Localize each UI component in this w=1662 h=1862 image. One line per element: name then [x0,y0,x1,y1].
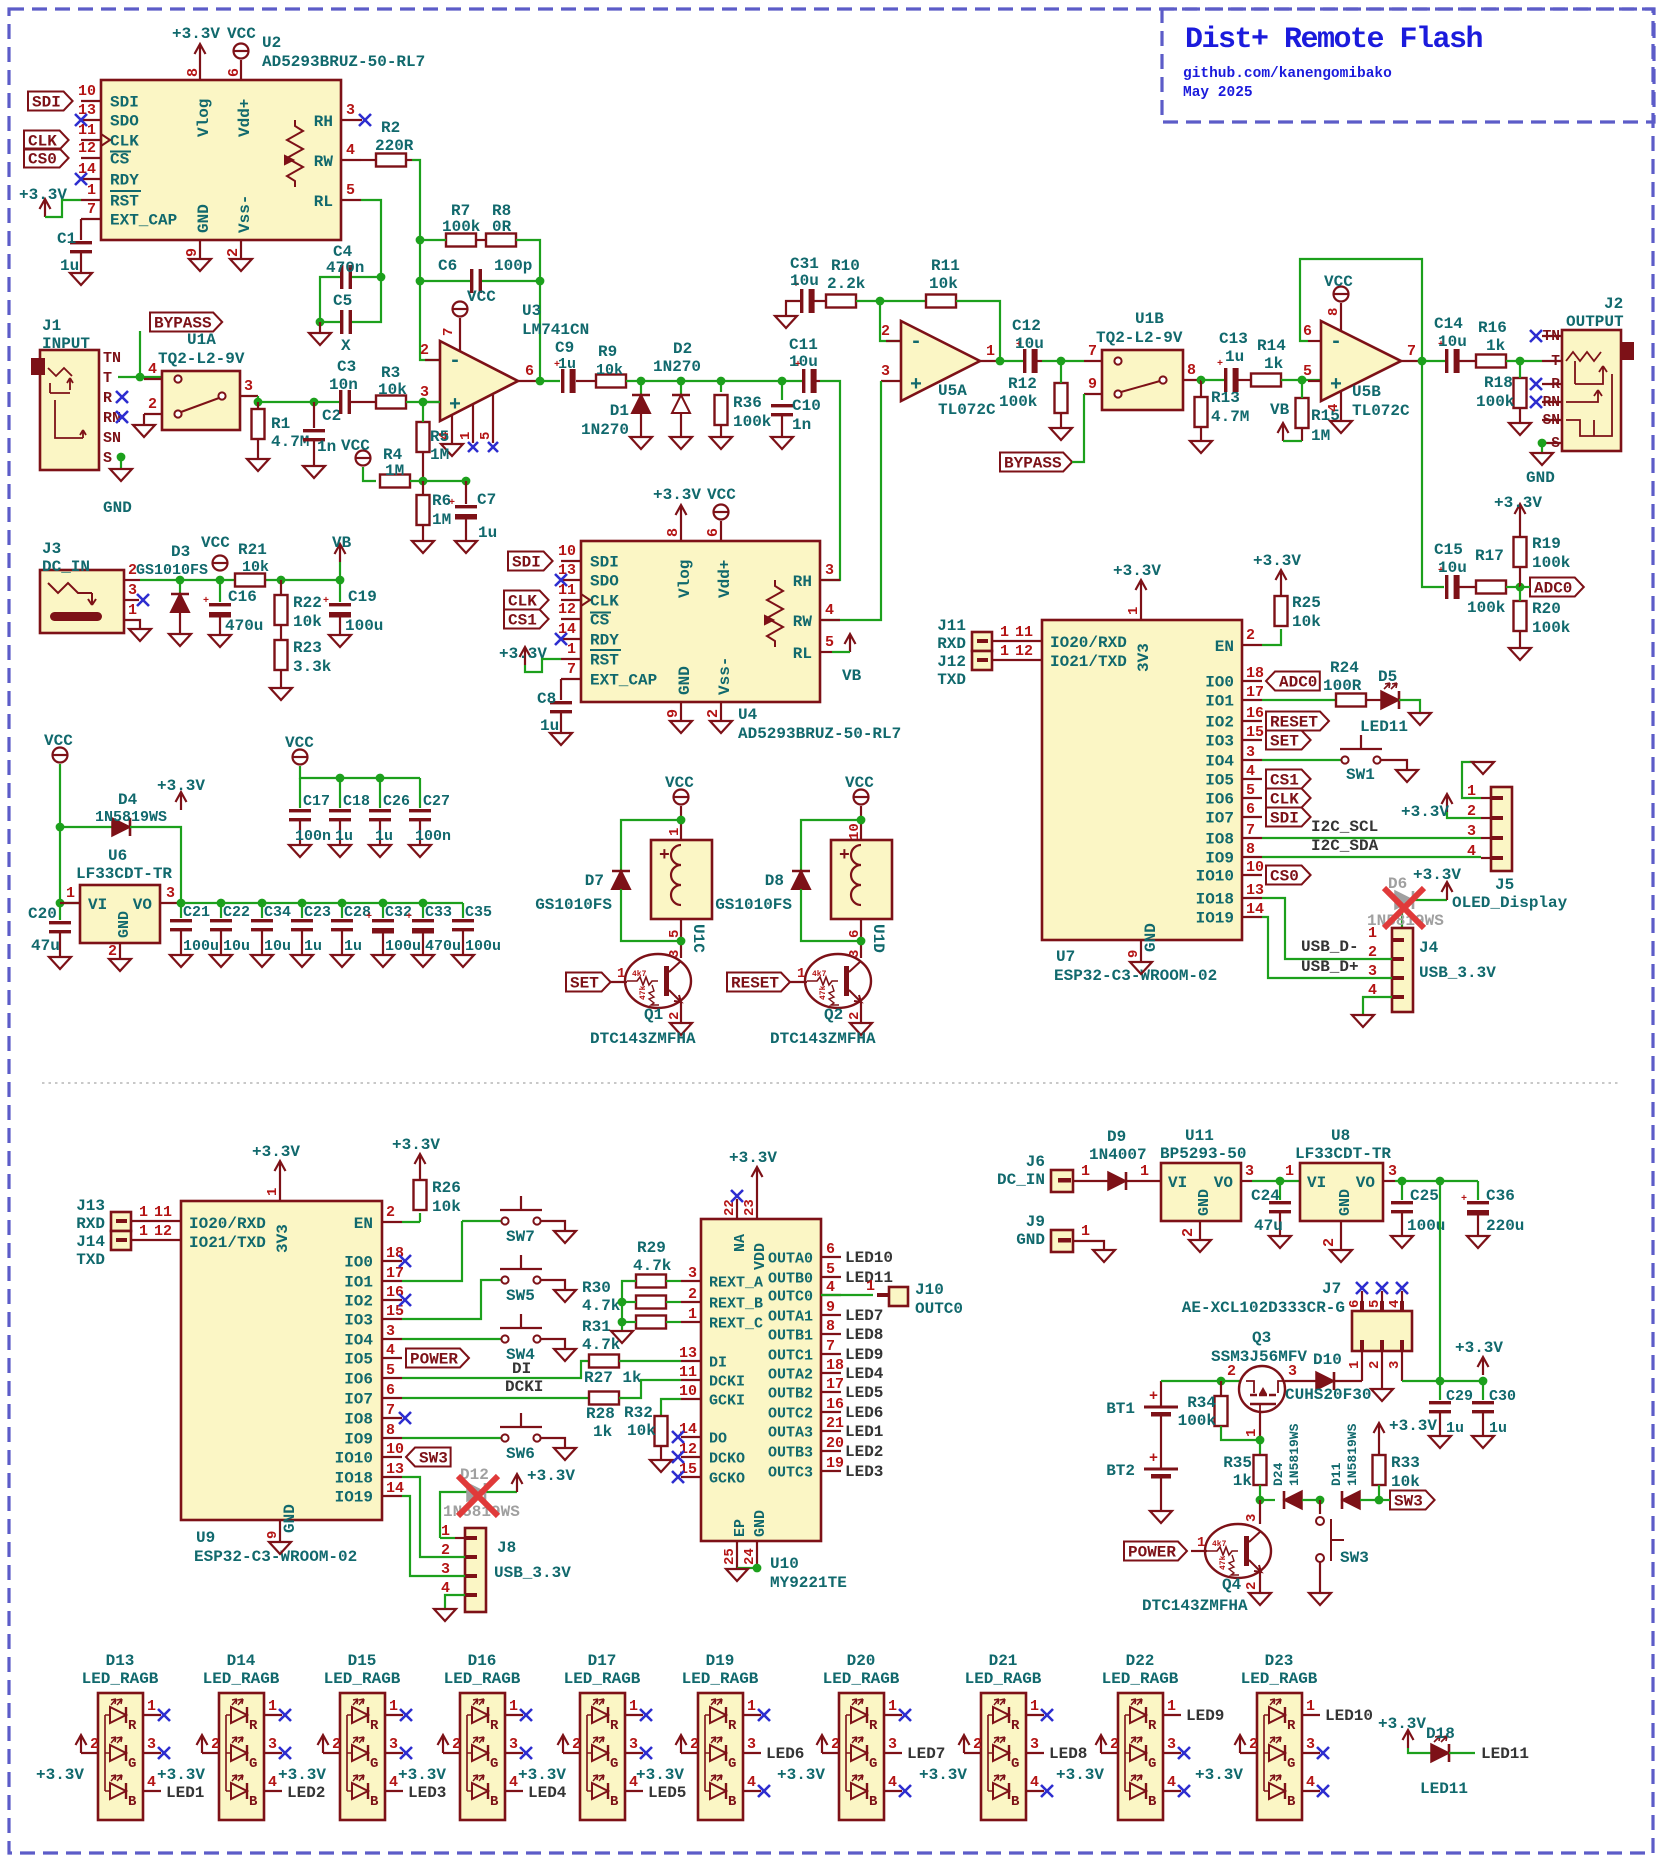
label CS0 at IO10 [1266,866,1311,885]
svg-text:LED_RAGB: LED_RAGB [965,1670,1042,1688]
svg-text:17: 17 [826,1376,844,1393]
connector J8 USB_3.3V [465,1528,486,1612]
svg-text:7: 7 [87,201,96,218]
capacitor C29 1u [1439,1381,1441,1400]
label RESET [727,973,790,992]
U5A pin stubs [886,340,901,342]
D13 no-connect pin1 [158,1709,170,1721]
wire U5A +input to U4 RW [822,381,881,620]
svg-text:8: 8 [665,528,682,537]
ground below U2 GND pin [189,259,211,271]
svg-text:C3: C3 [337,358,356,376]
svg-text:470u: 470u [225,617,263,635]
svg-text:SW3: SW3 [1394,1493,1423,1511]
resistor R23 3.3k [275,640,288,670]
svg-text:2: 2 [1180,1228,1197,1237]
junction R36 [717,377,726,386]
D21 pin2 +3.3V [964,1752,981,1754]
svg-text:D20: D20 [847,1652,876,1670]
resistor R4 1M [380,475,410,488]
svg-text:U7: U7 [1056,948,1075,966]
label BYPASS at U1B [1000,453,1072,472]
svg-text:1: 1 [567,641,576,658]
wire IO18 to J8 pin2 [402,1477,465,1557]
capacitor C23 1u [301,903,303,918]
svg-text:+3.3V: +3.3V [398,1766,446,1784]
no-connect X on U4 SDO [555,574,567,586]
svg-text:G: G [249,1756,257,1772]
section separator dotted line [42,1082,1620,1084]
U2 right pin stubs [341,119,362,121]
svg-text:3: 3 [166,885,175,902]
junction R33 bottom [1375,1496,1384,1505]
label SW3 out [1390,1491,1435,1510]
capacitor C34 10u [261,903,263,918]
junction R34 top [1217,1377,1226,1386]
svg-text:1: 1 [888,1698,897,1715]
svg-text:13: 13 [386,1461,404,1478]
svg-text:1: 1 [1030,1698,1039,1715]
junction U1C pin1 [677,816,686,825]
junction C18 [336,774,345,783]
junction C22 [217,899,226,908]
svg-text:10n: 10n [329,376,358,394]
svg-text:10k: 10k [378,381,407,399]
power VB at U4 RL [845,634,856,652]
svg-text:C31: C31 [790,255,819,273]
svg-text:1n: 1n [792,416,811,434]
svg-text:J10: J10 [915,1281,944,1299]
D21 no-connect pin4 [1041,1785,1053,1797]
svg-text:+: + [323,596,329,607]
svg-text:-: - [1330,331,1342,354]
ground below J7 pin2 [1371,1389,1393,1401]
svg-text:USB_D-: USB_D- [1301,938,1359,956]
resistor R5 1M [417,422,430,452]
svg-text:RESET: RESET [731,975,779,993]
resistors R29/R30/R31 4.7k [636,1275,666,1288]
U4 potentiometer zigzag [767,580,783,647]
svg-text:1: 1 [139,1223,148,1240]
svg-text:Vdd+: Vdd+ [716,560,734,598]
svg-text:C34: C34 [264,904,291,921]
svg-text:DTC143ZMFHA: DTC143ZMFHA [770,1030,876,1048]
ground below C16 [209,635,231,647]
svg-text:1M: 1M [432,511,451,529]
capacitor C27 100n [419,778,421,808]
RGB LED D20 LED_RAGB [839,1693,884,1820]
power VCC at U4 Vdd+ [714,505,729,520]
D16 pin2 +3.3V [443,1752,460,1754]
capacitor C22 10u [220,903,222,918]
svg-text:TXD: TXD [76,1251,105,1269]
svg-text:VCC: VCC [44,732,73,750]
svg-text:IO2: IO2 [344,1293,373,1311]
svg-text:Vlog: Vlog [195,99,213,137]
svg-text:10: 10 [78,83,96,100]
ground below R13 [1190,441,1212,453]
label POWER at IO5 [406,1349,469,1368]
svg-text:16: 16 [386,1284,404,1301]
svg-text:1M: 1M [385,462,404,480]
junction U1D pin10 [857,816,866,825]
svg-text:D10: D10 [1313,1351,1342,1369]
connector J6 DC_IN [1051,1170,1073,1192]
svg-text:100R: 100R [1323,677,1362,695]
svg-text:U6: U6 [108,847,127,865]
label RESET at IO2 [1266,712,1329,731]
svg-text:Vdd+: Vdd+ [236,99,254,137]
power VCC at C16 [213,556,228,571]
svg-text:22: 22 [722,1199,738,1216]
svg-text:10u: 10u [1438,559,1467,577]
svg-text:R23: R23 [293,639,322,657]
D13 right pins [143,1714,161,1716]
svg-text:LED3: LED3 [408,1784,446,1802]
svg-text:DTC143ZMFHA: DTC143ZMFHA [590,1030,696,1048]
svg-text:2: 2 [667,1012,683,1020]
RGB LED D17 LED_RAGB [580,1693,625,1820]
svg-text:TN: TN [103,350,121,367]
capacitor C7 1u [465,481,467,504]
svg-text:NA: NA [732,1234,749,1252]
J9 pin1 to ground [1073,1241,1104,1249]
D14 right pins [264,1714,282,1716]
svg-text:IO7: IO7 [1205,810,1234,828]
power VCC at U5B pin8 [1334,287,1349,302]
wire IO1 to SW7 branch [402,1221,462,1281]
svg-text:RXD: RXD [76,1215,105,1233]
svg-text:IO4: IO4 [1205,753,1234,771]
U2 potentiometer zigzag [287,120,303,187]
connector J11 RXD [972,632,992,651]
svg-text:R21: R21 [238,541,267,559]
J2 sleeve ground [1538,439,1547,448]
svg-text:4: 4 [1246,763,1255,780]
U4 right pin stubs [820,579,840,581]
svg-text:GND: GND [116,911,133,938]
label SDI [28,92,73,111]
push button SW4 [402,1338,504,1340]
svg-text:3: 3 [1387,1361,1403,1369]
svg-text:100u: 100u [465,938,501,955]
svg-text:-: - [910,331,922,354]
svg-text:SET: SET [1270,733,1299,751]
svg-text:10k: 10k [1391,1473,1420,1491]
label ADC0 output [1530,578,1584,597]
ground below C33 [412,955,434,967]
svg-text:4.7k: 4.7k [582,1297,621,1315]
svg-text:Dist+ Remote Flash: Dist+ Remote Flash [1185,23,1483,57]
svg-text:1: 1 [1000,643,1009,660]
svg-text:1M: 1M [1311,427,1330,445]
D20 pin2 +3.3V [822,1752,839,1754]
svg-text:C18: C18 [343,793,370,810]
svg-text:OUTB2: OUTB2 [768,1386,813,1403]
svg-text:OUTA2: OUTA2 [768,1367,813,1384]
svg-text:100k: 100k [1178,1412,1217,1430]
svg-text:CS1: CS1 [508,612,537,630]
D22 no-connect pin4 [1178,1785,1190,1797]
svg-text:VCC: VCC [467,288,496,306]
svg-text:D17: D17 [588,1652,617,1670]
svg-text:1u: 1u [304,938,322,955]
U3 offset pins 1 and 5 [472,405,474,443]
svg-text:11: 11 [1015,624,1033,641]
svg-text:RW: RW [314,153,334,171]
svg-text:D15: D15 [348,1652,377,1670]
svg-text:REXT_B: REXT_B [709,1296,763,1313]
svg-text:47k: 47k [639,985,648,1000]
svg-text:GND: GND [281,1504,299,1533]
svg-text:ADC0: ADC0 [1279,674,1317,692]
svg-text:1N270: 1N270 [653,358,701,376]
wire J13 to U9 pin11 [131,1220,181,1222]
svg-text:8: 8 [1187,362,1196,379]
U2 bottom pins ground [199,240,201,258]
no-connect X J1 RN [116,411,128,423]
svg-text:47u: 47u [31,937,60,955]
no-connect X J2 TN [1530,330,1542,342]
svg-text:LED_RAGB: LED_RAGB [444,1670,521,1688]
svg-text:100k: 100k [733,413,772,431]
svg-text:15: 15 [386,1303,404,1320]
wire J7 pin3 to 3.3V rail [1402,1380,1483,1382]
svg-text:100k: 100k [1532,619,1571,637]
svg-text:+: + [406,912,412,923]
junction C25 [1398,1177,1407,1186]
svg-text:4: 4 [509,1774,518,1791]
svg-text:1: 1 [1244,1429,1260,1437]
svg-text:+3.3V: +3.3V [1113,562,1161,580]
svg-text:IO5: IO5 [344,1351,373,1369]
label POWER at Q4 [1124,1542,1187,1561]
U3 pin4 ground [451,415,453,443]
junction C4 right [377,273,386,282]
U6 pin stubs [60,902,80,904]
D17 no-connect pin3 [640,1747,652,1759]
D17 no-connect pin1 [640,1709,652,1721]
svg-text:4: 4 [148,361,157,378]
svg-text:J8: J8 [497,1539,516,1557]
svg-text:OUTB0: OUTB0 [768,1271,813,1288]
svg-text:14: 14 [1246,901,1264,918]
D14 pin2 +3.3V [202,1752,219,1754]
capacitor C8 1u [560,679,562,700]
ground at SW1 [1396,770,1418,782]
svg-text:1: 1 [1126,607,1142,615]
svg-text:R: R [103,390,112,407]
svg-text:G: G [869,1756,877,1772]
svg-text:D9: D9 [1107,1128,1126,1146]
RGB LED D13 LED_RAGB [98,1693,143,1820]
svg-text:3: 3 [1388,1163,1397,1180]
wire J8 pin1 to D12 [455,1537,465,1539]
svg-text:2: 2 [1321,1238,1338,1247]
junction U5A output [996,357,1005,366]
svg-text:C19: C19 [348,588,377,606]
wire OUTC0 to J10 [821,1294,873,1296]
svg-text:1: 1 [667,828,683,836]
svg-text:1: 1 [66,885,75,902]
svg-text:18: 18 [1246,665,1264,682]
ground below R32 [650,1460,672,1472]
svg-text:SN: SN [103,430,121,447]
svg-text:9: 9 [265,1531,281,1539]
svg-text:3: 3 [825,562,834,579]
svg-text:IO6: IO6 [1205,791,1234,809]
svg-text:U8: U8 [1331,1127,1350,1145]
svg-text:IO18: IO18 [335,1470,373,1488]
svg-text:R: R [249,1718,258,1734]
junction C23 [298,899,307,908]
svg-text:LED9: LED9 [1186,1707,1224,1725]
D13 pin2 +3.3V [81,1752,98,1754]
svg-text:RH: RH [314,113,333,131]
svg-text:2: 2 [1249,1736,1258,1753]
microcontroller U9 ESP32-C3-WROOM-02 [181,1201,382,1520]
connector J5 OLED_Display [1491,787,1512,871]
ground below R18 [1509,423,1531,435]
svg-text:BT2: BT2 [1106,1462,1135,1480]
svg-text:+3.3V: +3.3V [1401,803,1449,821]
svg-text:0R: 0R [492,218,512,236]
resistor R36 100k [720,381,722,392]
svg-text:J6: J6 [1026,1153,1045,1171]
svg-text:BYPASS: BYPASS [1004,455,1062,473]
svg-text:BP5293-50: BP5293-50 [1160,1145,1246,1163]
Q4 collector wire [1259,1500,1261,1524]
svg-text:OUTC2: OUTC2 [768,1406,813,1423]
svg-text:GND: GND [195,204,213,233]
relay coil U1C [651,840,712,919]
svg-text:GND: GND [1142,923,1160,952]
svg-text:C33: C33 [425,904,452,921]
svg-text:VCC: VCC [341,437,370,455]
svg-text:4k7: 4k7 [812,970,827,979]
svg-text:CLK: CLK [110,133,139,151]
svg-text:6: 6 [386,1382,395,1399]
resistor R9 10k [596,375,626,388]
svg-text:GCKO: GCKO [709,1471,745,1488]
svg-text:GS1010FS: GS1010FS [535,896,612,914]
diode D10 CUHS20F30 [1285,1380,1316,1382]
svg-text:21: 21 [826,1415,844,1432]
junction R35 bottom [1256,1496,1265,1505]
ground below C4/C5 [319,322,321,332]
svg-text:10u: 10u [264,938,291,955]
svg-text:R5: R5 [430,428,449,446]
svg-text:LED10: LED10 [845,1249,893,1267]
U2 left pin stubs [81,100,101,102]
junction C12/R12 [1057,357,1066,366]
svg-text:B: B [490,1794,499,1810]
svg-text:C29: C29 [1446,1388,1473,1405]
resistor R22 10k [275,595,288,625]
svg-text:R14: R14 [1257,337,1286,355]
svg-text:8: 8 [386,1422,395,1439]
svg-text:8: 8 [1326,308,1342,316]
svg-text:1u: 1u [558,356,576,373]
svg-text:10k: 10k [1292,613,1321,631]
svg-text:4: 4 [147,1774,156,1791]
svg-text:G: G [1287,1756,1295,1772]
svg-text:IO9: IO9 [1205,850,1234,868]
svg-text:IO19: IO19 [335,1489,373,1507]
ground below U10 [726,1569,748,1581]
svg-text:IO20/RXD: IO20/RXD [189,1215,266,1233]
junction Q1 collector [677,937,686,946]
svg-text:7: 7 [1246,822,1255,839]
svg-text:R: R [1287,1718,1296,1734]
svg-text:+3.3V: +3.3V [278,1766,326,1784]
svg-text:AD5293BRUZ-50-RL7: AD5293BRUZ-50-RL7 [262,53,425,71]
svg-text:3: 3 [629,1736,638,1753]
svg-text:2: 2 [211,1736,220,1753]
Q3 gate to R35 node [1259,1412,1261,1440]
wire IO19 to J8 pin3 [402,1496,465,1576]
svg-text:16: 16 [1246,705,1264,722]
Q2 emitter ground [860,1002,862,1022]
diode D2 1N270 [680,381,682,395]
svg-text:1N5819WS: 1N5819WS [1287,1423,1302,1486]
svg-text:6: 6 [1347,1300,1363,1308]
svg-text:D21: D21 [989,1652,1018,1670]
svg-text:R17: R17 [1475,547,1504,565]
svg-text:1N270: 1N270 [581,421,629,439]
power VCC at U1C [674,790,689,805]
svg-text:+: + [1149,1450,1158,1467]
svg-text:AD5293BRUZ-50-RL7: AD5293BRUZ-50-RL7 [738,725,901,743]
svg-text:100k: 100k [442,218,481,236]
svg-text:VO: VO [1356,1174,1376,1192]
svg-text:+: + [1217,359,1223,370]
svg-text:+3.3V: +3.3V [1413,866,1461,884]
svg-text:D24: D24 [1271,1462,1286,1486]
svg-text:VB: VB [1270,401,1290,419]
svg-text:VI: VI [1168,1174,1187,1192]
capacitor C1 1u [80,219,82,240]
J1 sleeve ground [117,453,126,462]
junction C19/VB [336,576,345,585]
svg-text:CS: CS [590,612,610,630]
svg-text:10: 10 [558,543,576,560]
svg-text:100n: 100n [415,828,451,845]
svg-text:14: 14 [78,161,96,178]
svg-text:1: 1 [797,966,805,982]
svg-text:1N5819WS: 1N5819WS [95,809,167,826]
ground below U4 GND pin [670,721,692,733]
svg-text:GND: GND [676,666,694,695]
D15 pin2 +3.3V [323,1752,340,1754]
no-connect X U9 IO2 [399,1294,411,1306]
junction C7 [462,477,471,486]
svg-text:2: 2 [1246,627,1255,644]
svg-text:19: 19 [826,1455,844,1472]
svg-text:14: 14 [386,1480,404,1497]
svg-text:G: G [490,1756,498,1772]
svg-text:J9: J9 [1026,1213,1045,1231]
svg-text:GS1010FS: GS1010FS [136,562,208,579]
svg-text:10u: 10u [789,353,818,371]
ground below C22 [210,955,232,967]
svg-text:CS0: CS0 [1270,868,1299,886]
svg-text:VCC: VCC [845,774,874,792]
svg-text:8: 8 [185,68,202,77]
RGB LED D14 LED_RAGB [219,1693,264,1820]
resistor R17 100k [1476,581,1506,594]
svg-text:R22: R22 [293,594,322,612]
